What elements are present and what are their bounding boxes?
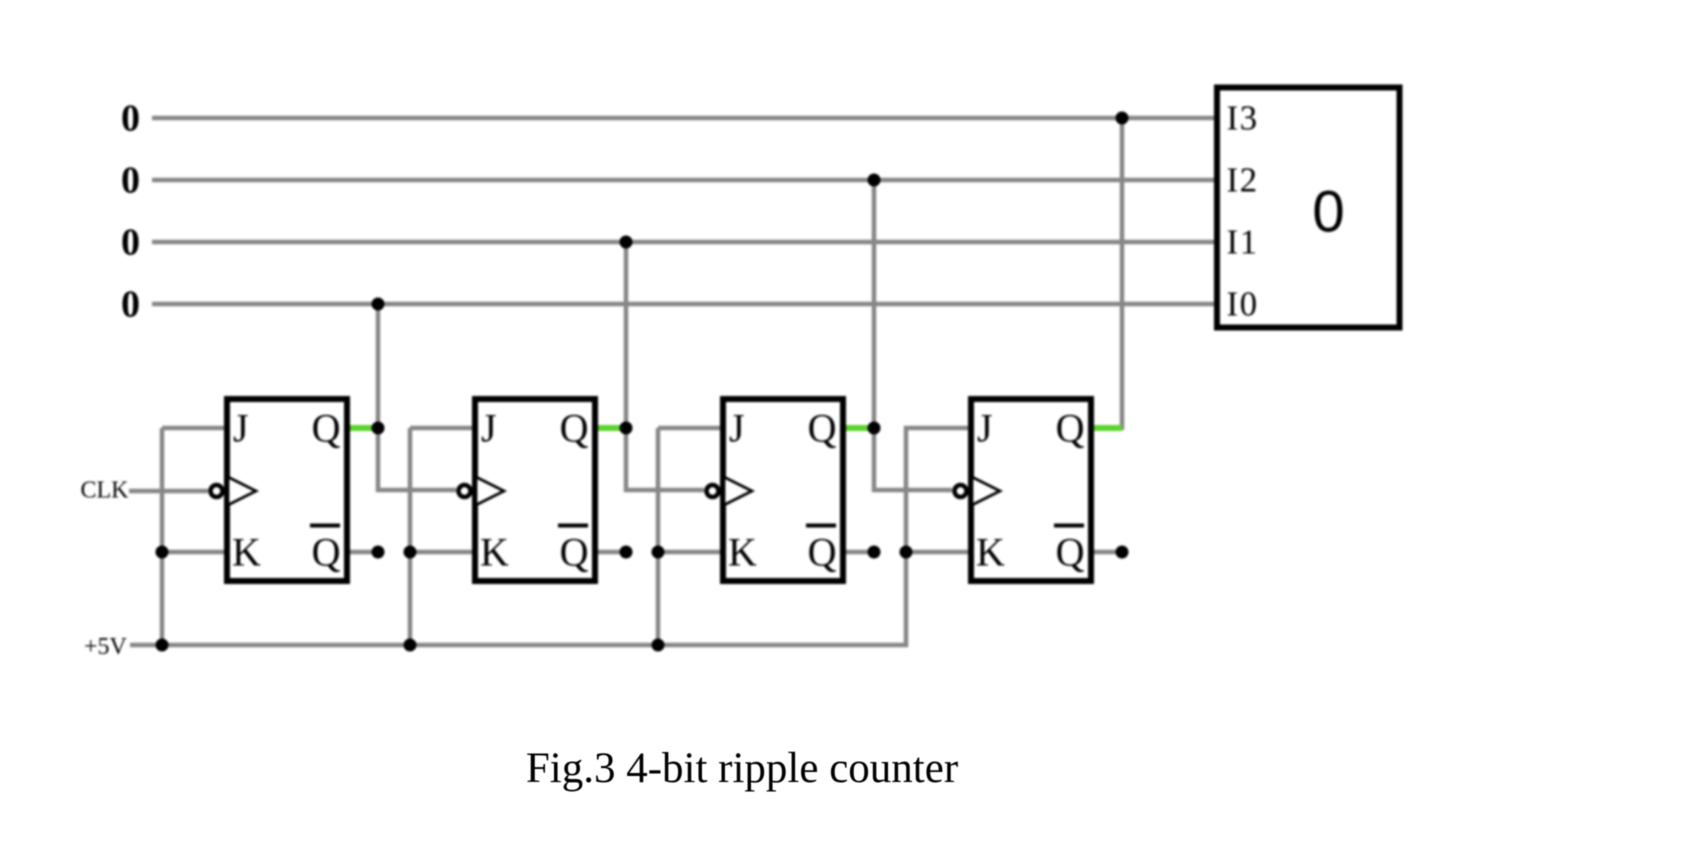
svg-text:Q: Q [1056, 406, 1085, 451]
svg-text:J: J [481, 406, 497, 451]
svg-text:J: J [977, 406, 993, 451]
svg-text:0: 0 [121, 222, 140, 264]
svg-text:Q: Q [312, 406, 341, 451]
svg-text:Q: Q [808, 530, 837, 575]
svg-text:K: K [480, 530, 509, 575]
svg-text:Q: Q [560, 406, 589, 451]
svg-text:K: K [728, 530, 757, 575]
svg-text:Q: Q [312, 530, 341, 575]
svg-text:I2: I2 [1227, 161, 1259, 200]
svg-text:K: K [232, 530, 261, 575]
svg-text:Q: Q [1056, 530, 1085, 575]
svg-text:CLK: CLK [81, 478, 130, 504]
svg-text:0: 0 [121, 98, 140, 140]
svg-text:I3: I3 [1227, 99, 1259, 138]
svg-text:0: 0 [121, 160, 140, 202]
svg-text:0: 0 [121, 284, 140, 326]
svg-text:J: J [233, 406, 249, 451]
svg-text:+5V: +5V [84, 634, 128, 660]
svg-text:J: J [729, 406, 745, 451]
svg-text:I0: I0 [1227, 285, 1259, 324]
svg-text:0: 0 [1312, 180, 1345, 245]
svg-text:Fig.3 4-bit ripple counter: Fig.3 4-bit ripple counter [526, 745, 958, 792]
svg-text:I1: I1 [1227, 223, 1259, 262]
svg-text:Q: Q [808, 406, 837, 451]
svg-text:K: K [976, 530, 1005, 575]
svg-text:Q: Q [560, 530, 589, 575]
